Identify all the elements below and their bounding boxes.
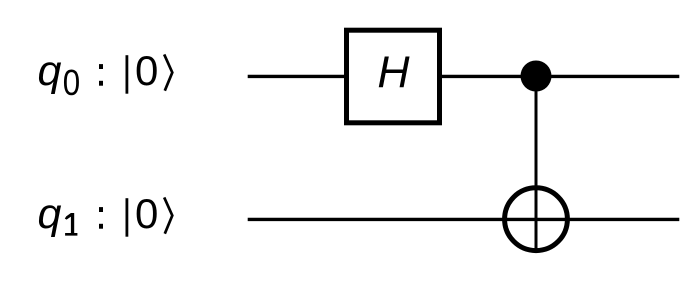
CNOT target circle [505, 188, 568, 251]
svg-text:0: 0 [63, 63, 80, 104]
label q0 colon (two dots) [99, 64, 103, 69]
gate H box U1 [347, 30, 440, 123]
wire qubit 1 [248, 218, 680, 221]
svg-text:q: q [38, 47, 62, 95]
label q0 ket rangle [164, 54, 172, 90]
label q0 ket pipe [126, 55, 129, 93]
svg-text:0: 0 [135, 190, 158, 237]
CNOT control dot [521, 61, 552, 92]
svg-text:q: q [38, 190, 62, 238]
label q1 colon (two dots) [99, 207, 103, 212]
wire qubit 0 [248, 75, 680, 78]
label q1 ket pipe [126, 198, 129, 237]
wire CNOT vertical connector [535, 76, 538, 252]
svg-text:0: 0 [135, 47, 158, 94]
label q0 subscript 0 [63, 63, 80, 104]
svg-text:H: H [377, 48, 410, 97]
label q1 ket rangle [164, 197, 172, 233]
label q1 subscript 1 (stem, flag, base bar) [65, 213, 78, 236]
